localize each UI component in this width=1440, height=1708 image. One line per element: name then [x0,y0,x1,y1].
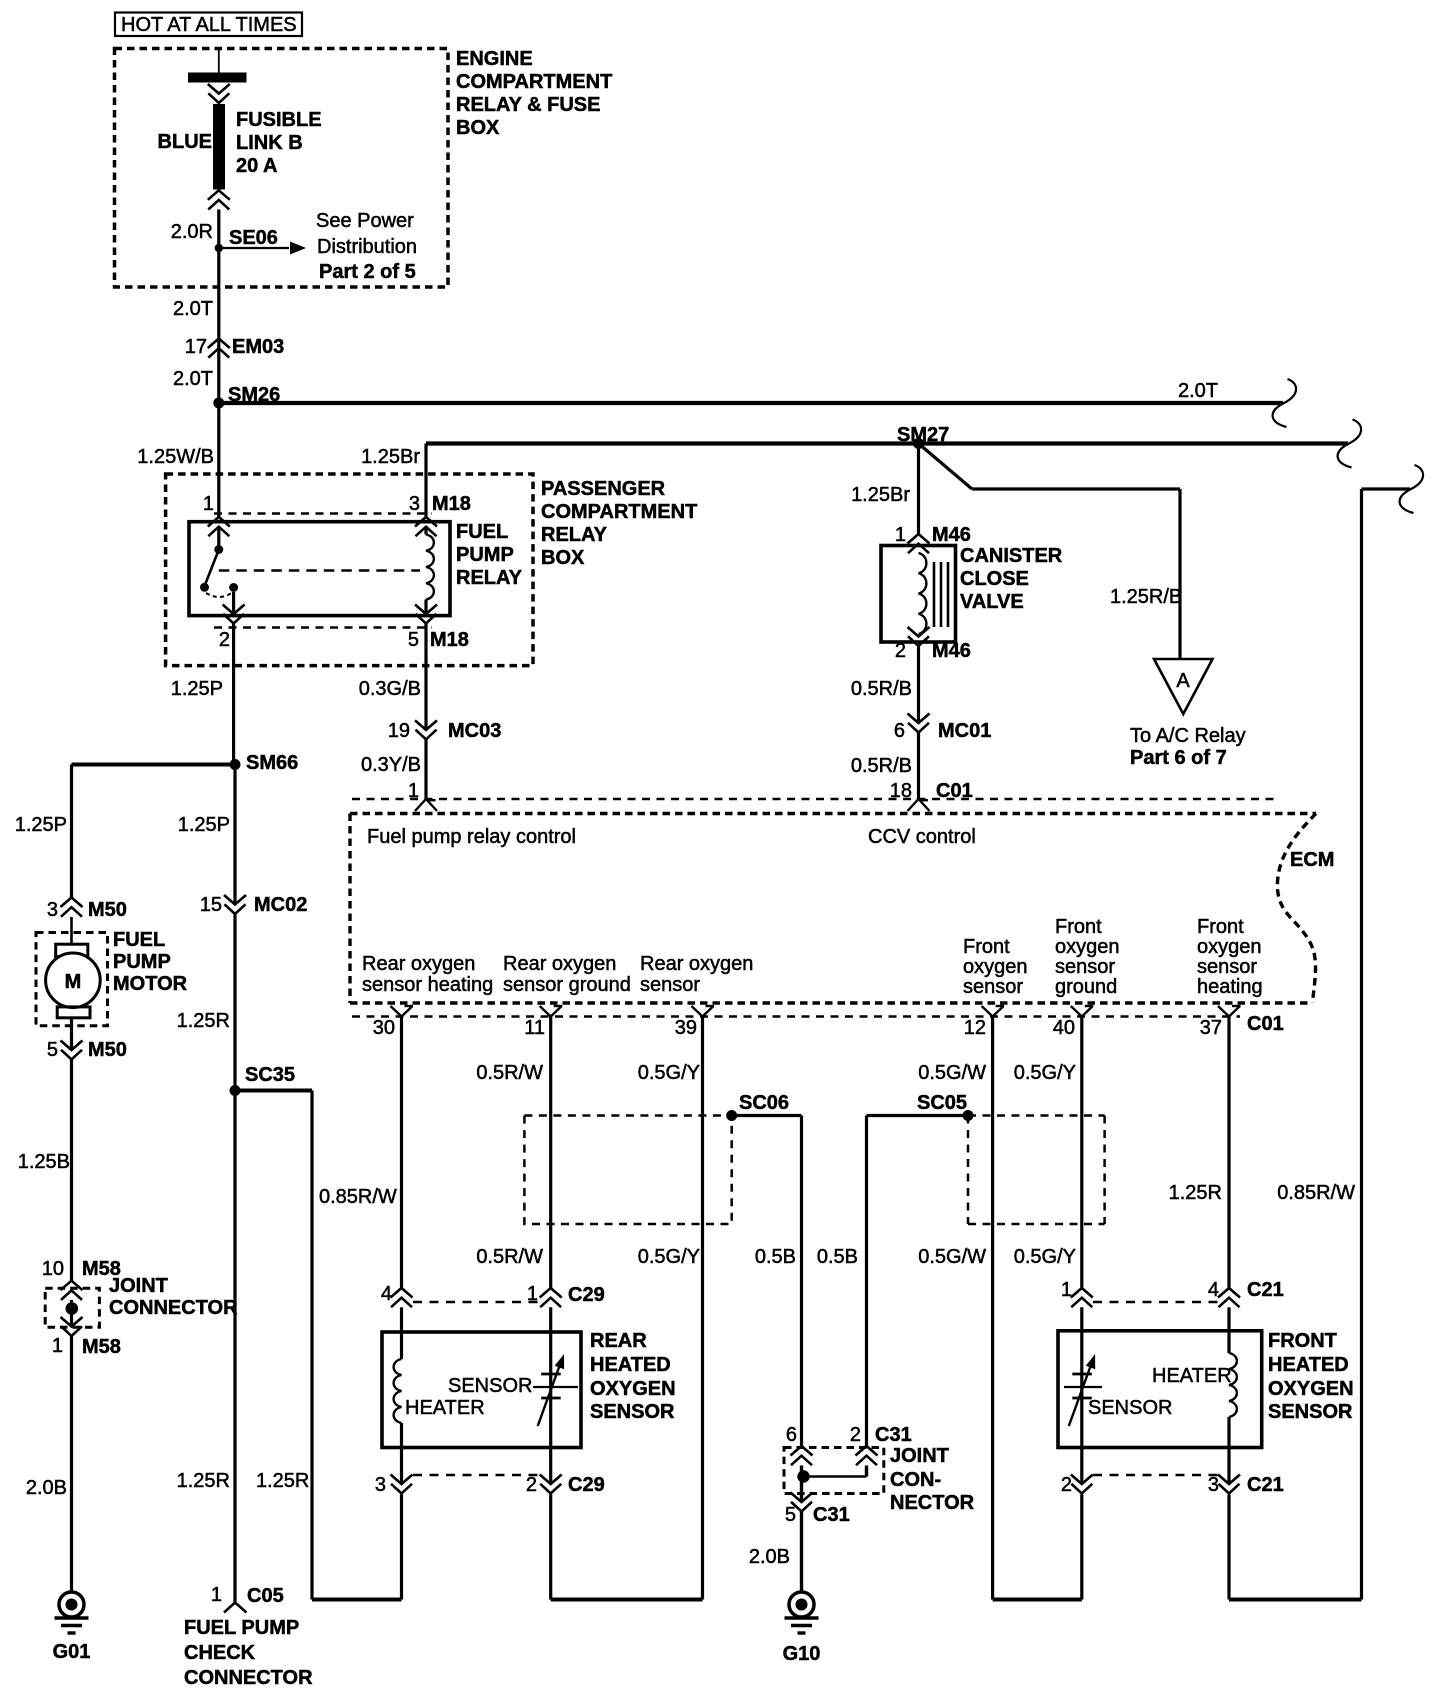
svg-text:CLOSE: CLOSE [960,568,1029,590]
svg-text:MC01: MC01 [938,720,991,742]
svg-text:1.25P: 1.25P [15,814,67,836]
svg-text:1.25W/B: 1.25W/B [137,446,214,468]
svg-text:sensor: sensor [640,974,700,996]
svg-text:FRONT: FRONT [1268,1330,1337,1352]
svg-text:C05: C05 [247,1585,284,1607]
svg-text:4: 4 [1208,1279,1219,1301]
svg-text:M18: M18 [432,493,471,515]
svg-text:sensor heating: sensor heating [362,974,493,996]
svg-text:40: 40 [1053,1017,1075,1039]
svg-text:3: 3 [1208,1474,1219,1496]
svg-text:3: 3 [375,1474,386,1496]
svg-text:MC03: MC03 [448,720,501,742]
svg-text:SE06: SE06 [229,227,278,249]
svg-text:SM66: SM66 [246,752,298,774]
svg-text:ground: ground [1055,976,1117,998]
svg-text:BLUE: BLUE [158,131,212,153]
svg-text:VALVE: VALVE [960,591,1024,613]
svg-text:1.25R: 1.25R [256,1470,309,1492]
svg-text:Rear oxygen: Rear oxygen [362,953,475,975]
svg-text:RELAY & FUSE: RELAY & FUSE [456,94,600,116]
svg-text:1.25P: 1.25P [178,814,230,836]
svg-text:M50: M50 [88,899,127,921]
svg-text:JOINT: JOINT [109,1275,168,1297]
svg-text:0.5R/W: 0.5R/W [476,1246,543,1268]
svg-text:6: 6 [894,720,905,742]
svg-text:2: 2 [895,640,906,662]
svg-text:0.5B: 0.5B [755,1246,796,1268]
svg-text:0.5G/Y: 0.5G/Y [1014,1246,1076,1268]
svg-text:M46: M46 [932,524,971,546]
svg-text:Rear oxygen: Rear oxygen [503,953,616,975]
svg-text:PUMP: PUMP [456,544,514,566]
svg-text:12: 12 [964,1017,986,1039]
svg-text:C21: C21 [1247,1279,1284,1301]
svg-text:C31: C31 [813,1504,850,1526]
svg-text:To A/C Relay: To A/C Relay [1130,725,1246,747]
svg-text:0.5R/W: 0.5R/W [476,1062,543,1084]
svg-text:1.25Br: 1.25Br [851,484,910,506]
svg-text:SENSOR: SENSOR [448,1375,532,1397]
svg-text:0.3Y/B: 0.3Y/B [361,754,421,776]
svg-text:CHECK: CHECK [184,1642,256,1664]
svg-text:PUMP: PUMP [113,951,171,973]
svg-text:C01: C01 [1247,1013,1284,1035]
svg-text:1: 1 [203,493,214,515]
svg-text:17: 17 [185,336,207,358]
svg-text:11: 11 [524,1017,545,1039]
svg-text:LINK B: LINK B [236,132,303,154]
svg-text:HEATED: HEATED [590,1354,671,1376]
svg-text:Part 6 of 7: Part 6 of 7 [1130,747,1227,769]
svg-text:37: 37 [1200,1017,1222,1039]
svg-text:PASSENGER: PASSENGER [541,478,666,500]
svg-text:HOT AT ALL TIMES: HOT AT ALL TIMES [121,14,297,36]
svg-text:30: 30 [373,1017,395,1039]
svg-text:heating: heating [1197,976,1263,998]
svg-text:SENSOR: SENSOR [1088,1397,1172,1419]
svg-text:1.25R: 1.25R [177,1470,230,1492]
svg-text:0.3G/B: 0.3G/B [359,678,421,700]
svg-text:0.5B: 0.5B [817,1246,858,1268]
svg-text:0.5G/Y: 0.5G/Y [1014,1062,1076,1084]
svg-text:1: 1 [895,524,906,546]
svg-text:3: 3 [409,493,420,515]
svg-text:NECTOR: NECTOR [890,1492,975,1514]
svg-text:G10: G10 [783,1643,821,1665]
svg-text:39: 39 [675,1017,697,1039]
svg-text:SC06: SC06 [739,1092,789,1114]
svg-text:A: A [1176,670,1190,692]
svg-text:2.0B: 2.0B [749,1546,790,1568]
svg-text:2.0R: 2.0R [171,221,213,243]
svg-text:sensor: sensor [1055,956,1115,978]
svg-text:15: 15 [200,894,222,916]
svg-text:C29: C29 [568,1284,605,1306]
svg-text:MOTOR: MOTOR [113,973,188,995]
svg-text:1.25R: 1.25R [1169,1182,1222,1204]
svg-text:BOX: BOX [541,547,585,569]
svg-text:10: 10 [42,1258,64,1280]
svg-text:sensor ground: sensor ground [503,974,631,996]
svg-text:BOX: BOX [456,117,500,139]
svg-text:SC35: SC35 [245,1064,295,1086]
svg-text:1: 1 [1061,1279,1072,1301]
svg-text:FUEL: FUEL [113,929,165,951]
svg-text:1.25P: 1.25P [171,678,223,700]
svg-text:M18: M18 [430,629,469,651]
svg-text:oxygen: oxygen [963,956,1028,978]
svg-text:Distribution: Distribution [317,236,417,258]
svg-text:RELAY: RELAY [541,524,608,546]
svg-text:0.5G/W: 0.5G/W [918,1062,986,1084]
svg-text:FUSIBLE: FUSIBLE [236,109,322,131]
svg-text:REAR: REAR [590,1330,647,1352]
svg-text:Fuel pump relay control: Fuel pump relay control [367,826,576,848]
svg-text:1.25B: 1.25B [18,1151,70,1173]
svg-text:0.5G/Y: 0.5G/Y [638,1246,700,1268]
svg-text:Front: Front [1197,916,1244,938]
svg-text:C21: C21 [1247,1474,1284,1496]
svg-text:See Power: See Power [316,210,414,232]
svg-text:FUEL PUMP: FUEL PUMP [184,1617,299,1639]
svg-text:CCV control: CCV control [868,826,976,848]
svg-text:COMPARTMENT: COMPARTMENT [456,71,612,93]
svg-text:oxygen: oxygen [1055,936,1120,958]
svg-text:CON-: CON- [890,1469,941,1491]
svg-text:1.25Br: 1.25Br [361,446,420,468]
svg-text:5: 5 [408,629,419,651]
svg-text:Part 2 of 5: Part 2 of 5 [319,261,416,283]
svg-text:5: 5 [47,1039,58,1061]
svg-text:OXYGEN: OXYGEN [590,1378,676,1400]
svg-text:2: 2 [219,629,230,651]
svg-text:OXYGEN: OXYGEN [1268,1378,1354,1400]
svg-text:0.5R/B: 0.5R/B [851,678,912,700]
svg-text:G01: G01 [53,1641,91,1663]
svg-text:0.5G/W: 0.5G/W [918,1246,986,1268]
svg-text:3: 3 [47,899,58,921]
svg-text:5: 5 [785,1504,796,1526]
svg-text:0.85R/W: 0.85R/W [1277,1182,1355,1204]
svg-text:MC02: MC02 [254,894,307,916]
svg-text:C29: C29 [568,1474,605,1496]
svg-text:COMPARTMENT: COMPARTMENT [541,501,697,523]
svg-text:1.25R: 1.25R [177,1010,230,1032]
svg-text:RELAY: RELAY [456,567,523,589]
svg-text:1: 1 [52,1335,63,1357]
svg-text:19: 19 [388,720,410,742]
svg-text:Front: Front [963,936,1010,958]
svg-text:JOINT: JOINT [890,1445,949,1467]
svg-text:HEATED: HEATED [1268,1354,1349,1376]
svg-text:0.85R/W: 0.85R/W [319,1186,397,1208]
svg-text:CANISTER: CANISTER [960,545,1063,567]
svg-text:Front: Front [1055,916,1102,938]
svg-text:HEATER: HEATER [405,1397,485,1419]
svg-text:4: 4 [381,1283,392,1305]
svg-text:HEATER: HEATER [1152,1365,1232,1387]
svg-text:1: 1 [211,1584,222,1606]
svg-text:C31: C31 [875,1424,912,1446]
svg-text:2.0T: 2.0T [1178,380,1218,402]
svg-text:CONNECTOR: CONNECTOR [184,1667,313,1689]
svg-text:2.0B: 2.0B [26,1477,67,1499]
svg-text:EM03: EM03 [232,336,284,358]
svg-text:CONNECTOR: CONNECTOR [109,1297,238,1319]
svg-text:sensor: sensor [963,976,1023,998]
svg-text:0.5R/B: 0.5R/B [851,755,912,777]
svg-text:2: 2 [1061,1474,1072,1496]
svg-text:FUEL: FUEL [456,521,508,543]
svg-text:sensor: sensor [1197,956,1257,978]
svg-text:SENSOR: SENSOR [590,1401,675,1423]
svg-text:oxygen: oxygen [1197,936,1262,958]
svg-text:M46: M46 [932,640,971,662]
svg-text:Rear oxygen: Rear oxygen [640,953,753,975]
svg-text:ENGINE: ENGINE [456,48,533,70]
svg-text:M50: M50 [88,1039,127,1061]
svg-text:2: 2 [526,1474,537,1496]
svg-text:2.0T: 2.0T [173,368,213,390]
svg-text:6: 6 [786,1424,797,1446]
svg-text:M: M [65,971,82,993]
svg-text:M58: M58 [82,1336,121,1358]
svg-text:20 A: 20 A [236,155,278,177]
svg-text:2.0T: 2.0T [173,298,213,320]
svg-text:2: 2 [850,1424,861,1446]
svg-text:1.25R/B: 1.25R/B [1110,586,1182,608]
svg-text:SENSOR: SENSOR [1268,1401,1353,1423]
svg-text:SC05: SC05 [917,1092,967,1114]
svg-text:ECM: ECM [1290,849,1334,871]
svg-text:0.5G/Y: 0.5G/Y [638,1062,700,1084]
